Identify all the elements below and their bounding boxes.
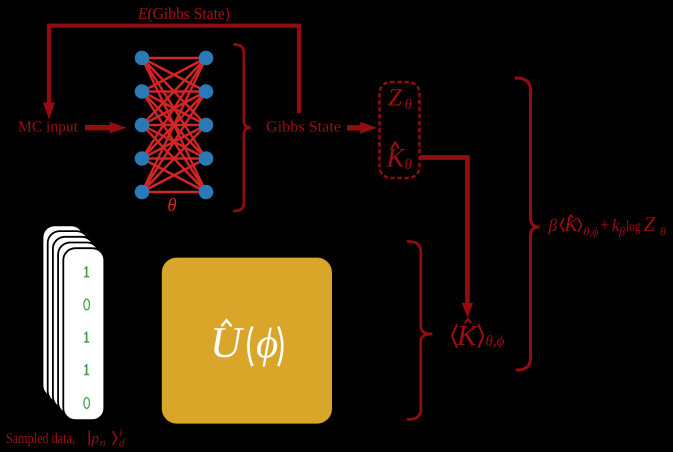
svg-text:+: +: [600, 216, 610, 235]
svg-text:n: n: [100, 437, 106, 449]
sampled data cards stack: [43, 225, 105, 420]
dashed box Z and K: [380, 82, 420, 178]
svg-text:β: β: [548, 215, 558, 235]
arrow Gibbs State to box: [347, 122, 377, 134]
label E(Gibbs State): [137, 4, 230, 23]
label MC input: [18, 119, 79, 136]
brace total energy: [516, 78, 540, 370]
label Gibbs State: [266, 119, 341, 136]
svg-text:θ: θ: [167, 195, 176, 216]
svg-text:β: β: [618, 225, 625, 239]
svg-text:p: p: [91, 431, 100, 447]
svg-text:θ: θ: [405, 97, 413, 113]
label Z_theta: [388, 85, 413, 114]
label K hat theta: [386, 143, 413, 174]
label U hat phi: [210, 318, 282, 368]
neural network left nodes: [135, 51, 150, 200]
svg-text:ϕ: ϕ: [256, 321, 278, 368]
svg-text:θ,ϕ: θ,ϕ: [486, 334, 505, 350]
svg-text:MC input: MC input: [18, 119, 79, 136]
svg-text:Z: Z: [388, 85, 403, 112]
label theta: [167, 195, 176, 216]
svg-text:log: log: [626, 218, 641, 235]
label expectation K theta phi: [452, 319, 505, 352]
svg-text:K: K: [456, 320, 478, 352]
svg-text:θ,ϕ: θ,ϕ: [584, 225, 599, 239]
label Sampled data: [6, 427, 125, 450]
neural network right nodes: [199, 51, 214, 200]
svg-text:Gibbs State: Gibbs State: [266, 119, 341, 136]
wire K to expectation arrow: [420, 158, 473, 319]
svg-text:Z: Z: [644, 212, 656, 236]
svg-text:θ: θ: [660, 225, 666, 239]
svg-text:θ: θ: [405, 157, 413, 173]
svg-text:E(Gibbs State): E(Gibbs State): [137, 4, 230, 23]
svg-text:K: K: [386, 143, 407, 173]
arrow MC input to network: [85, 122, 127, 133]
brace network output: [234, 45, 251, 212]
neural network edges: [142, 58, 206, 192]
svg-text:d: d: [119, 438, 125, 450]
wire feedback-loop E(Gibbs State): [43, 26, 299, 120]
svg-text:U: U: [210, 318, 245, 367]
unitary gate box U(phi): [162, 258, 332, 424]
label beta K expectation plus kB log Z: [548, 212, 667, 239]
brace bottom row: [408, 242, 433, 420]
svg-text:Sampled data,: Sampled data,: [6, 431, 75, 447]
svg-text:K: K: [564, 214, 580, 236]
